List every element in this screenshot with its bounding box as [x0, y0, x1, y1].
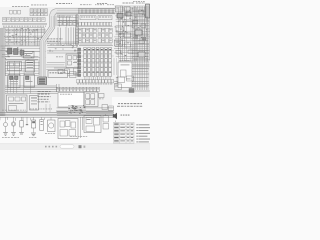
relay box bottom outer: [58, 119, 78, 139]
module M2: [26, 61, 35, 73]
relay block K1 grid: [30, 9, 47, 16]
status bar button: [79, 145, 82, 148]
connector C101: [8, 48, 13, 54]
diode D1: [18, 49, 22, 53]
component labels bottom left: [2, 136, 4, 139]
label box row 1 left: [80, 16, 96, 20]
right relay box: [118, 62, 132, 88]
wire mesh left components area: [1, 46, 39, 59]
harness duct fill: [43, 11, 116, 77]
horn H1: [50, 117, 52, 120]
right top connector box: [116, 6, 123, 12]
wire mesh bottom drops: [0, 117, 45, 121]
drop wires bottom right area: [105, 114, 107, 116]
harness duct end connector: [38, 77, 47, 85]
harness duct inner strands: [41, 10, 115, 77]
stub drop: [26, 117, 28, 124]
right top text c: [133, 0, 135, 3]
right scatter box b: [133, 21, 138, 24]
wire mesh tile I verticals: [7, 76, 30, 94]
wire mesh center lower: [46, 62, 65, 69]
module M1: [8, 62, 22, 71]
terminal strip top edge: [78, 8, 115, 10]
bottom label under junction block: [70, 135, 72, 138]
wire mesh center verticals: [58, 27, 78, 46]
ground G4: [31, 133, 36, 136]
motor M3: [13, 117, 15, 122]
text under duct: [57, 15, 59, 18]
relay bank cross wires: [74, 51, 114, 73]
bundle inline box 2: [138, 52, 145, 57]
right scatter box d: [119, 34, 124, 37]
connector block CN5: [84, 92, 98, 107]
center wire labels: [50, 44, 52, 47]
top label text b: [31, 4, 33, 7]
right lower connector: [115, 84, 122, 90]
relay bank K2-K8: [84, 48, 112, 81]
strip top labels: [80, 3, 82, 6]
strip left connector ladder: [76, 15, 79, 44]
right scatter box a: [139, 10, 144, 14]
dense band above white box: [57, 87, 100, 91]
junction block bottom outer: [84, 116, 101, 133]
boxes under duct: [58, 21, 77, 26]
wire mesh right lower field: [114, 62, 150, 72]
wire mesh right bundle crossings: [132, 11, 150, 68]
wire mesh center horizontals: [46, 42, 79, 53]
left vertical wire bundle: [0, 28, 5, 116]
right box 5: [124, 33, 131, 38]
control unit box: [48, 71, 68, 78]
right gray bit b: [134, 35, 138, 39]
connector row CN1: [3, 18, 46, 22]
relay bank bottom label band: [77, 80, 114, 83]
wire mesh left field: [2, 28, 46, 46]
bundle end dark box: [129, 89, 134, 93]
relay K9 label: [56, 56, 58, 59]
wire mesh far left components: [0, 46, 10, 57]
right gray bit c: [142, 37, 146, 41]
left field labels: [6, 29, 7, 32]
right scatter box f: [128, 50, 133, 53]
solenoid SL1: [41, 117, 43, 120]
small box right of control unit: [70, 72, 77, 78]
legend notes list: [137, 124, 151, 145]
right small dark box 1: [117, 14, 123, 19]
sensor box S1: [8, 75, 20, 88]
lower bus wires: [0, 111, 114, 117]
fuse F1: [10, 10, 13, 14]
ground G3: [19, 133, 24, 135]
right box 4: [116, 27, 124, 32]
speaker icon: [113, 113, 117, 120]
right connector C201: [115, 40, 123, 46]
white module box: [58, 93, 84, 108]
wire mesh center gap fill: [20, 49, 45, 58]
wire mesh left lower: [1, 60, 40, 76]
right box 3: [126, 21, 133, 26]
wire mesh below duct elbow: [56, 15, 78, 27]
sensor box S2: [24, 75, 35, 88]
fuse grid FB1: [79, 28, 113, 43]
right scatter box c: [141, 24, 146, 27]
legend table first column shading: [114, 123, 119, 146]
ECU box: [7, 95, 28, 112]
speaker drop wire: [115, 121, 117, 124]
right gray bit a: [124, 13, 128, 16]
relay box bottom inner boxes: [60, 121, 76, 137]
left field text specks: [9, 28, 39, 45]
bottom small boxes right: [103, 116, 109, 123]
small boxes above white box: [58, 70, 63, 74]
right small dark box 2: [126, 12, 131, 16]
control unit text: [50, 71, 52, 74]
right scatter box e: [139, 40, 144, 44]
label box row 1 right: [98, 16, 112, 20]
relay bank band text: [77, 83, 79, 86]
text row under bus: [3, 25, 5, 28]
wire mesh relay-to-band verticals: [79, 44, 113, 46]
status bar page dots: [45, 146, 57, 148]
top label text a: [12, 5, 14, 8]
lamp L1: [5, 117, 7, 122]
ground G1: [3, 133, 8, 136]
speaker label: [121, 114, 123, 117]
viewer status bar: [0, 144, 150, 150]
terminal strip TB1 ticks: [79, 9, 114, 13]
switch SW1: [33, 117, 35, 120]
wire mesh mid-left bus: [0, 86, 57, 93]
junction small cell row: [79, 22, 112, 26]
pin ladder column: [78, 48, 81, 77]
box right of ECU: [30, 96, 39, 111]
wire mesh center bottom: [57, 108, 114, 116]
bus under connector row: [2, 22, 47, 24]
right connector C202: [125, 42, 131, 47]
fuse F3: [18, 10, 21, 14]
right white gap: [112, 58, 119, 75]
horn label: [45, 132, 47, 135]
right tall element: [146, 4, 150, 18]
right top text labels: [123, 2, 125, 5]
status bar slider: [60, 145, 74, 148]
vertical wire pair center: [56, 84, 58, 92]
right scatter box g: [116, 51, 121, 54]
notes text block: [118, 102, 120, 105]
boxes right of CN5: [99, 94, 105, 98]
connector C103: [20, 50, 24, 55]
ignition coil T1: [24, 52, 35, 59]
fuse F2: [14, 10, 17, 14]
vertical wires below text block: [45, 104, 47, 112]
relay K9: [66, 54, 79, 68]
center label text rows: [47, 38, 50, 41]
right field text specks: [116, 8, 148, 58]
wires duct to center: [0, 0, 1, 1]
harness label text block: [38, 91, 51, 102]
resistor R1: [21, 117, 23, 121]
right field dark specks: [115, 10, 146, 43]
dense text block: [68, 105, 86, 114]
legend table text: [114, 124, 133, 145]
header text above duct: [56, 2, 58, 5]
small boxes lower right of center: [102, 105, 108, 110]
right small box B: [124, 7, 130, 12]
wire mesh right field: [114, 6, 150, 62]
legend table: [114, 122, 135, 146]
sheet background: [0, 0, 150, 150]
right mid boxes: [117, 77, 125, 83]
lower bus labels: [30, 108, 32, 111]
ground G2: [11, 133, 16, 136]
harness duct outline: [43, 11, 116, 77]
connector C102: [14, 49, 19, 55]
junction block bottom inner: [86, 118, 100, 132]
bundle inline box: [135, 30, 142, 35]
sheet scan tint: [0, 7, 150, 115]
strip drop wires: [75, 14, 77, 47]
right vertical wire bundle: [134, 6, 148, 90]
